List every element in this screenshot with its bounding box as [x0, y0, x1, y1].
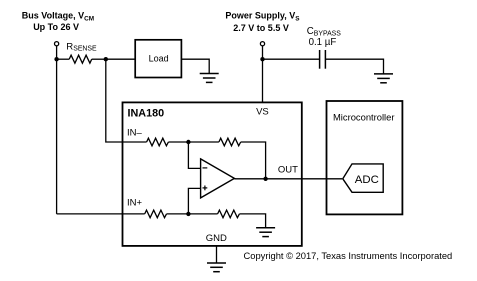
wire: node A to RSENSE: [57, 58, 70, 60]
wire: op-amp output to ADC: [234, 178, 342, 180]
svg-text:0.1 µF: 0.1 µF: [309, 37, 337, 48]
block: Load: [135, 40, 181, 78]
wire: node C to CBYPASS: [263, 58, 320, 60]
svg-text:INA180: INA180: [128, 108, 165, 120]
node: noninverting node F: [186, 212, 190, 216]
wire: R4 to internal ground: [239, 214, 265, 228]
wire: R3 to node F: [167, 213, 189, 215]
pin label: IN+: [127, 197, 143, 208]
wire: R1 to node D: [168, 141, 188, 143]
svg-text:IN–: IN–: [127, 128, 143, 139]
svg-text:GND: GND: [206, 233, 227, 244]
svg-text:Copyright © 2017, Texas Instru: Copyright © 2017, Texas Instruments Inco…: [244, 251, 453, 261]
pin label: VS: [256, 107, 269, 118]
terminal: power supply input: [260, 42, 264, 46]
ground: internal reference: [256, 228, 275, 237]
capacitor CBYPASS: [320, 50, 326, 69]
wire: supply terminal to node C: [262, 46, 264, 59]
ground: GND pin: [207, 263, 226, 272]
node: supply junction C: [260, 57, 264, 61]
block: Microcontroller outline: [327, 101, 403, 214]
svg-text:Up To 26 V: Up To 26 V: [33, 22, 79, 32]
pin label: GND: [206, 233, 227, 244]
wire: node B to Load box: [106, 58, 135, 60]
svg-text:IN+: IN+: [127, 197, 143, 208]
svg-text:Load: Load: [149, 54, 169, 64]
label: INA180: [128, 108, 165, 120]
svg-text:ADC: ADC: [355, 174, 379, 186]
terminal: bus voltage input: [55, 42, 59, 46]
wire: node F to R4: [188, 213, 217, 215]
label: Power Supply VS annotation: [225, 11, 300, 33]
wire: node D to feedback resistor: [188, 141, 219, 143]
wire: GND pin to ground: [216, 246, 218, 263]
svg-text:VS: VS: [256, 107, 269, 118]
svg-text:OUT: OUT: [278, 165, 298, 176]
pin label: OUT: [278, 165, 298, 176]
wire: node C down to VS pin: [262, 59, 264, 102]
svg-text:2.7 V to 5.5 V: 2.7 V to 5.5 V: [233, 23, 289, 33]
wire: Load to ground stub: [181, 59, 209, 73]
svg-text:Microcontroller: Microcontroller: [333, 111, 394, 122]
block: ADC: [343, 164, 383, 192]
label: CBYPASS value: [307, 26, 341, 48]
op-amp U1: [201, 159, 235, 198]
wire: terminal to bus node: [56, 46, 58, 59]
wire: CBYPASS to ground stub: [325, 59, 383, 74]
resistor R2 (feedback): [219, 138, 241, 146]
wire: node D to op-amp inverting input: [188, 142, 200, 168]
block: INA180 outline: [123, 102, 302, 246]
resistor R4 (to ground): [218, 210, 240, 218]
wire: RSENSE to node B: [92, 58, 106, 60]
ground: load return: [200, 74, 219, 83]
node: load junction B: [104, 57, 108, 61]
wire: left bus vertical down to IN+: [56, 59, 58, 214]
label: RSENSE: [66, 41, 97, 52]
wire: R2 to output node: [241, 142, 266, 179]
node: bus junction A: [54, 57, 58, 61]
resistor R3 (IN+ input): [145, 210, 167, 218]
node: output junction E: [263, 177, 267, 181]
label: Microcontroller: [333, 111, 394, 122]
label: copyright: [244, 251, 453, 261]
wire: node B down to IN- pin: [106, 59, 147, 142]
label: Bus Voltage VCM annotation: [22, 11, 94, 32]
pin label: IN-: [127, 128, 143, 139]
resistor RSENSE: [69, 55, 92, 63]
wire: IN+ pin into R3: [57, 213, 145, 215]
resistor R1 (IN- input): [147, 138, 169, 146]
wire: op-amp noninverting input to node F: [188, 188, 200, 214]
node: inverting input node D: [186, 140, 190, 144]
ground: bypass return: [374, 74, 393, 83]
